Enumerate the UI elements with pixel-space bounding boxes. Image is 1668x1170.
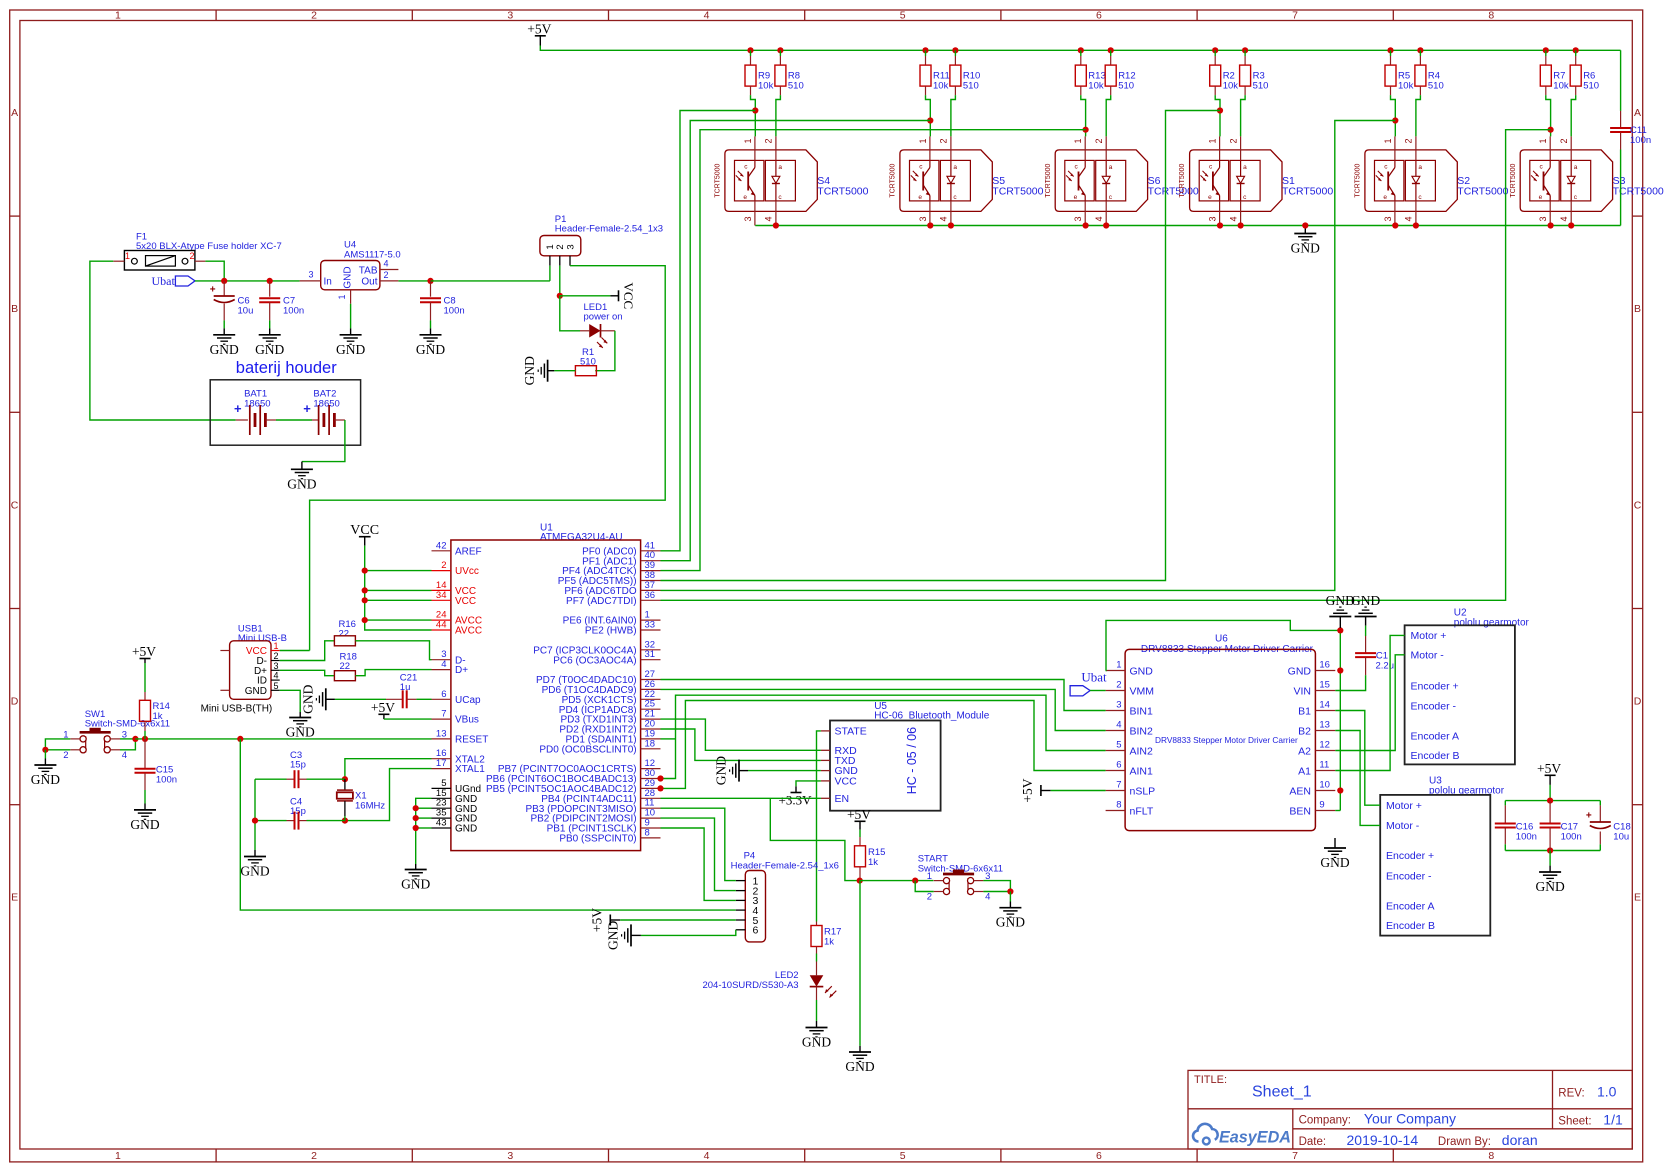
wire S2 signal to PF6: [661, 121, 1396, 591]
svg-text:+5V: +5V: [527, 21, 551, 36]
svg-text:1k: 1k: [153, 711, 163, 722]
node junction S3 signal: [1550, 130, 1552, 137]
svg-text:PE2 (HWB): PE2 (HWB): [585, 626, 637, 637]
svg-text:PD0 (OC0BSCLINT0): PD0 (OC0BSCLINT0): [539, 744, 636, 755]
ground GND (U5, rotated): [739, 770, 748, 772]
node junction S4 signal: [754, 111, 756, 137]
svg-text:2: 2: [1116, 680, 1121, 691]
svg-text:B: B: [1634, 303, 1641, 315]
svg-text:TCRT5000: TCRT5000: [1282, 186, 1333, 198]
svg-text:TAB: TAB: [359, 266, 378, 277]
svg-text:1: 1: [918, 138, 928, 143]
resistor R2 10k: [1212, 47, 1218, 53]
svg-text:5: 5: [900, 1150, 906, 1162]
svg-text:Drawn By:: Drawn By:: [1438, 1136, 1491, 1148]
wire R13 to S6 pin1: [1081, 95, 1086, 130]
battery holder box: [210, 380, 360, 445]
svg-text:42: 42: [436, 540, 447, 551]
wire PD2 to U5 TXD: [661, 729, 821, 760]
wire USB GND to ground: [280, 690, 301, 712]
svg-text:8: 8: [645, 827, 650, 838]
svg-text:nFLT: nFLT: [1130, 805, 1154, 817]
svg-text:D: D: [11, 696, 19, 708]
ground GND (below U6): [1334, 838, 1336, 848]
wire U6 B1 to U3 Motor+: [1335, 711, 1380, 806]
svg-text:VBus: VBus: [455, 715, 479, 726]
svg-text:2: 2: [441, 560, 446, 571]
svg-text:1u: 1u: [400, 682, 411, 693]
svg-text:3: 3: [274, 661, 279, 671]
wire PD3 to U5 RXD: [661, 719, 821, 750]
svg-text:GND: GND: [1320, 855, 1349, 870]
svg-text:Encoder A: Encoder A: [1386, 900, 1434, 912]
svg-text:4: 4: [383, 259, 388, 269]
svg-text:B: B: [11, 303, 18, 315]
svg-text:18: 18: [645, 738, 656, 749]
svg-text:43: 43: [436, 818, 447, 829]
node junction S2 signal: [1394, 121, 1396, 137]
resistor R13 10k: [1078, 47, 1084, 53]
capacitor C1 2.2u: [1365, 626, 1367, 636]
capacitor C15 100n: [144, 739, 146, 769]
svg-text:a: a: [1243, 164, 1247, 171]
node junction S1 signal: [1219, 111, 1221, 137]
svg-text:12: 12: [1319, 740, 1330, 751]
svg-text:U6: U6: [1215, 634, 1228, 645]
wire R6 to S3 pin2: [1571, 95, 1576, 136]
svg-text:A: A: [11, 107, 18, 119]
svg-text:power on: power on: [584, 312, 623, 323]
svg-text:2019-10-14: 2019-10-14: [1347, 1132, 1419, 1148]
svg-text:GND: GND: [996, 915, 1025, 930]
svg-text:1: 1: [1073, 138, 1083, 143]
capacitor C18 10u: [1599, 801, 1601, 806]
svg-text:10k: 10k: [933, 81, 949, 92]
svg-text:1: 1: [1383, 138, 1393, 143]
capacitor C16 100n: [1504, 801, 1506, 806]
svg-text:e: e: [743, 194, 747, 201]
svg-text:BIN1: BIN1: [1130, 705, 1154, 717]
resistor R17 1k: [816, 922, 818, 926]
svg-text:10k: 10k: [1223, 81, 1239, 92]
svg-text:+5V: +5V: [1537, 761, 1561, 776]
svg-text:GND: GND: [522, 356, 537, 385]
resistor R3 510: [1242, 47, 1248, 53]
svg-text:GND: GND: [1130, 665, 1154, 677]
optical sensor S4 TCRT5000: [725, 150, 817, 212]
svg-text:EN: EN: [835, 793, 850, 805]
svg-text:TCRT5000: TCRT5000: [1355, 163, 1362, 197]
ground GND (USB): [289, 717, 311, 719]
svg-text:+: +: [1586, 811, 1592, 822]
svg-text:4: 4: [1559, 216, 1569, 221]
wire S1 signal to PF5: [661, 111, 1221, 581]
svg-text:UCap: UCap: [455, 695, 481, 706]
svg-text:510: 510: [1118, 81, 1134, 92]
resistor R8 510: [777, 47, 783, 53]
svg-text:Company:: Company:: [1299, 1115, 1351, 1127]
svg-text:1k: 1k: [824, 937, 834, 948]
svg-text:6: 6: [753, 925, 759, 937]
svg-text:5: 5: [274, 681, 279, 691]
svg-text:C: C: [11, 499, 19, 511]
wire XTAL2 to crystal node: [345, 759, 432, 780]
svg-text:REV:: REV:: [1558, 1088, 1584, 1100]
svg-text:15: 15: [1319, 680, 1330, 691]
wire U4 GND pin1 to ground: [350, 304, 352, 329]
svg-text:RESET: RESET: [455, 735, 488, 746]
svg-text:e: e: [1208, 194, 1212, 201]
svg-text:e: e: [1074, 194, 1078, 201]
wire USB D+ to R18: [280, 670, 335, 675]
svg-text:22: 22: [339, 629, 350, 640]
wire R15 junction down to ground: [859, 881, 861, 1046]
svg-text:2: 2: [274, 651, 279, 661]
svg-text:9: 9: [1319, 800, 1324, 811]
capacitor C17 100n: [1549, 801, 1551, 824]
wire R2 to S1 pin1: [1215, 95, 1220, 110]
svg-text:10k: 10k: [1088, 81, 1104, 92]
svg-text:AREF: AREF: [455, 546, 482, 557]
svg-text:100n: 100n: [1516, 832, 1537, 843]
svg-text:Header-Female-2.54_1x6: Header-Female-2.54_1x6: [731, 861, 839, 872]
svg-text:GND: GND: [802, 1035, 831, 1050]
svg-text:Encoder +: Encoder +: [1411, 681, 1459, 693]
svg-text:GND: GND: [300, 684, 315, 713]
resistor R11 10k: [922, 47, 928, 53]
ground GND (R15): [849, 1051, 871, 1053]
svg-text:11: 11: [1319, 760, 1329, 771]
svg-text:a: a: [1418, 164, 1422, 171]
wire S6 signal to PF4: [661, 130, 1086, 571]
wire XTAL1 route: [345, 769, 432, 821]
svg-text:GND: GND: [1291, 241, 1320, 256]
svg-text:BEN: BEN: [1289, 805, 1311, 817]
svg-text:1k: 1k: [868, 857, 878, 868]
svg-text:3: 3: [918, 216, 928, 221]
svg-text:nSLP: nSLP: [1130, 785, 1156, 797]
svg-text:4: 4: [1228, 216, 1238, 221]
svg-text:100n: 100n: [156, 775, 177, 786]
svg-text:5: 5: [1116, 740, 1121, 751]
svg-text:TCRT5000: TCRT5000: [1457, 186, 1508, 198]
wire R4 to S2 pin2: [1416, 95, 1421, 136]
wire R10 to S5 pin2: [951, 95, 956, 136]
svg-text:PC6 (OC3AOC4A): PC6 (OC3AOC4A): [553, 655, 636, 666]
ground GND (START): [999, 907, 1021, 909]
svg-text:a: a: [1109, 164, 1113, 171]
svg-text:6: 6: [1096, 10, 1102, 22]
svg-text:TCRT5000: TCRT5000: [1148, 186, 1199, 198]
EasyEDA logo: [1193, 1124, 1218, 1142]
resistor R7 10k: [1543, 47, 1549, 53]
svg-text:3: 3: [507, 1150, 513, 1162]
wire PB1 to P4 pin3: [661, 828, 736, 900]
svg-text:Motor +: Motor +: [1386, 800, 1422, 812]
wire Ubat flag to VMM: [1090, 690, 1106, 692]
capacitor C11 100n: [1620, 50, 1622, 111]
wire R8 to S4 pin2: [776, 95, 781, 136]
wire U6 A2 to U2 Motor-: [1335, 655, 1404, 751]
svg-text:6: 6: [441, 689, 446, 700]
svg-text:510: 510: [1253, 81, 1269, 92]
wire BAT2 - to ground: [302, 420, 345, 462]
svg-text:Encoder B: Encoder B: [1386, 920, 1435, 932]
svg-text:7: 7: [441, 709, 446, 720]
wire P4 pin6 to ground: [641, 930, 736, 936]
wire R7 to S3 pin1: [1546, 95, 1551, 130]
node S2 pin3/pin4 on GND rail: [1392, 222, 1398, 228]
wire C1 to U6 VIN: [1335, 675, 1365, 690]
svg-text:1: 1: [337, 294, 347, 299]
wire P1 pin2 down to LED1: [559, 266, 561, 296]
svg-text:VCC: VCC: [350, 523, 379, 538]
wire S4 signal to PF0: [661, 111, 756, 551]
wire LED1 cathode to R1: [595, 331, 615, 371]
resistor R9 10k: [747, 47, 753, 53]
svg-text:TCRT5000: TCRT5000: [1179, 163, 1186, 197]
wire PD1/PB6 to U6 AIN2: [661, 695, 1106, 778]
node S3 pin3/pin4 on GND rail: [1548, 222, 1554, 228]
wire R12 to S6 pin2: [1106, 95, 1111, 136]
optical sensor S5 TCRT5000: [900, 150, 992, 212]
wire PB3 to P4 pin1: [661, 808, 736, 880]
wire F1 pin1 to battery +: [90, 261, 236, 420]
svg-text:AVCC: AVCC: [455, 626, 482, 637]
svg-text:pololu gearmotor: pololu gearmotor: [1454, 618, 1530, 629]
wire START pin2 jog: [915, 881, 934, 892]
svg-text:TCRT5000: TCRT5000: [715, 163, 722, 197]
svg-text:510: 510: [788, 81, 804, 92]
wire PB4 to U5 EN: [661, 797, 821, 799]
svg-text:STATE: STATE: [835, 726, 867, 738]
wire +5V rail: [540, 46, 1620, 51]
svg-text:3: 3: [565, 244, 576, 249]
svg-text:AEN: AEN: [1289, 785, 1311, 797]
svg-text:14: 14: [1319, 700, 1330, 711]
svg-text:44: 44: [436, 620, 447, 631]
resistor R14 1k: [144, 663, 146, 692]
svg-text:TCRT5000: TCRT5000: [817, 186, 868, 198]
svg-text:Your Company: Your Company: [1364, 1111, 1456, 1127]
svg-text:1: 1: [1208, 138, 1218, 143]
svg-text:AMS1117-5.0: AMS1117-5.0: [344, 250, 401, 261]
svg-text:Date:: Date:: [1299, 1136, 1327, 1148]
svg-text:a: a: [953, 164, 957, 171]
node S4 pin3/pin4 on GND rail: [773, 222, 779, 228]
svg-text:1/1: 1/1: [1603, 1112, 1623, 1128]
svg-text:PF7 (ADC7TDI): PF7 (ADC7TDI): [566, 596, 637, 607]
svg-text:PB0 (SSPCINT0): PB0 (SSPCINT0): [559, 834, 636, 845]
svg-text:+: +: [303, 401, 311, 416]
wire U6 B2 to U3 Motor-: [1335, 731, 1380, 826]
svg-text:16: 16: [1319, 660, 1330, 671]
resistor R5 10k: [1387, 47, 1393, 53]
svg-text:18650: 18650: [313, 399, 339, 410]
svg-text:Encoder -: Encoder -: [1411, 700, 1457, 712]
wire USB D- to R16: [280, 641, 335, 661]
wire SW1 pins 1/2 to ground: [45, 739, 70, 750]
ground GND (R1, rotated): [548, 370, 555, 372]
svg-text:UVcc: UVcc: [455, 566, 479, 577]
svg-text:GND: GND: [336, 342, 365, 357]
wire sensor GND rail: [755, 225, 1620, 227]
wire RESET line: [135, 738, 431, 740]
wire F1 pin2 to Ubat node: [205, 261, 224, 281]
wire R3 to S1 pin2: [1241, 95, 1246, 136]
svg-text:7: 7: [1116, 780, 1121, 791]
ground GND (U6 pin16/AEN/BEN, inverted): [1339, 617, 1341, 629]
svg-text:10: 10: [1319, 780, 1330, 791]
svg-text:8: 8: [1488, 10, 1494, 22]
ground GND (cap bank): [1539, 871, 1561, 873]
resistor R12 510: [1108, 47, 1114, 53]
svg-text:Encoder +: Encoder +: [1386, 850, 1434, 862]
wire U4 Out to +5V net / P1: [398, 280, 430, 282]
optical sensor S2 TCRT5000: [1365, 150, 1457, 212]
ground GND (C3/C4): [244, 856, 266, 858]
svg-text:31: 31: [645, 649, 656, 660]
ground GND (C1, inverted): [1365, 617, 1367, 626]
wire PD7 to U6 BIN1: [661, 680, 1106, 711]
svg-text:2: 2: [63, 750, 68, 761]
wire S5 signal to PF1: [661, 121, 931, 561]
svg-text:10k: 10k: [758, 81, 774, 92]
svg-text:Header-Female-2.54_1x3: Header-Female-2.54_1x3: [555, 224, 663, 235]
wire ground to U5 GND: [748, 770, 821, 772]
svg-text:1: 1: [274, 641, 279, 651]
svg-text:4: 4: [441, 659, 446, 670]
svg-text:204-10SURD/S530-A3: 204-10SURD/S530-A3: [702, 980, 798, 991]
svg-text:2: 2: [1228, 138, 1238, 143]
svg-text:GND: GND: [245, 686, 267, 697]
svg-text:3: 3: [1073, 216, 1083, 221]
svg-text:GND: GND: [343, 266, 354, 288]
svg-text:GND: GND: [255, 342, 284, 357]
svg-text:D: D: [1634, 696, 1642, 708]
ground GND (SW1): [34, 764, 56, 766]
svg-text:3: 3: [743, 216, 753, 221]
svg-text:Mini USB-B: Mini USB-B: [238, 633, 287, 644]
node S6 pin3/pin4 on GND rail: [1083, 222, 1089, 228]
svg-text:+3.3V: +3.3V: [779, 793, 813, 808]
svg-text:36: 36: [645, 590, 656, 601]
svg-text:4: 4: [122, 750, 127, 761]
wire R15 junction to START: [860, 880, 934, 882]
svg-text:3: 3: [308, 270, 313, 280]
svg-text:Out: Out: [361, 277, 377, 288]
svg-text:1: 1: [927, 871, 932, 882]
svg-text:10k: 10k: [1553, 81, 1569, 92]
svg-text:7: 7: [1292, 1150, 1298, 1162]
svg-text:GND: GND: [845, 1059, 874, 1074]
ground GND (C21, rotated): [326, 698, 335, 700]
net flag VCC (P1): [560, 295, 611, 297]
svg-text:GND: GND: [210, 342, 239, 357]
svg-text:1.0: 1.0: [1597, 1084, 1617, 1100]
svg-text:+5V: +5V: [847, 807, 871, 822]
svg-text:doran: doran: [1502, 1132, 1538, 1148]
wire EN branch to START net: [770, 798, 859, 880]
svg-text:100n: 100n: [1630, 135, 1651, 146]
wire cap bank to ground: [1549, 851, 1551, 866]
svg-text:2: 2: [383, 270, 388, 280]
svg-text:XTAL1: XTAL1: [455, 764, 485, 775]
svg-text:AIN1: AIN1: [1130, 765, 1154, 777]
svg-text:Motor -: Motor -: [1386, 820, 1420, 832]
svg-text:TCRT5000: TCRT5000: [992, 186, 1043, 198]
wire R16 to U1 D-: [355, 641, 431, 660]
wire VCC to U1 power pins: [365, 546, 432, 630]
svg-text:Encoder -: Encoder -: [1386, 870, 1432, 882]
svg-text:18650: 18650: [244, 399, 270, 410]
wire U6 A1 to U2 Motor+: [1335, 635, 1404, 770]
node R15 bottom junction: [857, 878, 863, 884]
svg-text:4: 4: [704, 1150, 710, 1162]
svg-text:510: 510: [1428, 81, 1444, 92]
svg-text:2: 2: [939, 138, 949, 143]
svg-text:2: 2: [1404, 138, 1414, 143]
svg-text:B2: B2: [1298, 725, 1311, 737]
crystal X1 16MHz: [344, 779, 346, 790]
svg-text:13: 13: [436, 728, 447, 739]
svg-text:HC - 05 / 06: HC - 05 / 06: [905, 727, 919, 794]
svg-text:2: 2: [311, 10, 317, 22]
wire LED2 cathode to ground: [816, 1000, 818, 1021]
svg-text:4: 4: [1116, 720, 1121, 731]
svg-text:2: 2: [927, 892, 932, 903]
wire R1 to ground: [554, 370, 575, 372]
svg-text:3: 3: [1383, 216, 1393, 221]
svg-text:Ubat: Ubat: [152, 274, 176, 288]
svg-text:GND: GND: [286, 725, 315, 740]
capacitor C8 100n: [430, 281, 432, 297]
svg-text:baterij houder: baterij houder: [236, 359, 337, 377]
node S5 pin3/pin4 on GND rail: [927, 222, 933, 228]
wire S3 signal to PF7: [661, 130, 1551, 601]
svg-text:1: 1: [125, 251, 130, 261]
ground GND column (U6 right): [1339, 628, 1341, 811]
wire +5V to VBus: [384, 718, 432, 720]
ground GND (U4): [340, 334, 362, 336]
svg-text:B1: B1: [1298, 705, 1311, 717]
svg-text:3: 3: [1208, 216, 1218, 221]
svg-text:A: A: [1634, 107, 1641, 119]
svg-text:ATMEGA32U4-AU: ATMEGA32U4-AU: [540, 532, 623, 543]
ground GND (P4 pin6, rotated): [631, 934, 641, 936]
svg-text:100n: 100n: [283, 306, 304, 317]
svg-text:16MHz: 16MHz: [355, 801, 385, 812]
wire START pins 3/4 to ground: [983, 881, 1010, 892]
svg-text:GND: GND: [714, 756, 729, 785]
svg-text:3: 3: [507, 10, 513, 22]
ground GND (C6): [213, 334, 235, 336]
wire Ubat node to U4 In: [195, 280, 300, 282]
svg-text:C: C: [1634, 499, 1642, 511]
wire U6 GND pin1 to ground column: [1106, 620, 1341, 670]
svg-text:1: 1: [743, 138, 753, 143]
svg-text:DRV8833 Stepper Motor Driver C: DRV8833 Stepper Motor Driver Carrier: [1155, 735, 1298, 745]
svg-text:E: E: [1634, 892, 1641, 904]
svg-text:4: 4: [939, 216, 949, 221]
wire U1 GND pins to ground: [416, 798, 432, 864]
svg-text:GND: GND: [130, 817, 159, 832]
svg-text:4: 4: [985, 892, 990, 903]
ground GND (LED2): [806, 1027, 828, 1029]
svg-text:D+: D+: [455, 665, 468, 676]
wire BAT1 to BAT2: [276, 419, 312, 421]
svg-text:e: e: [1383, 194, 1387, 201]
